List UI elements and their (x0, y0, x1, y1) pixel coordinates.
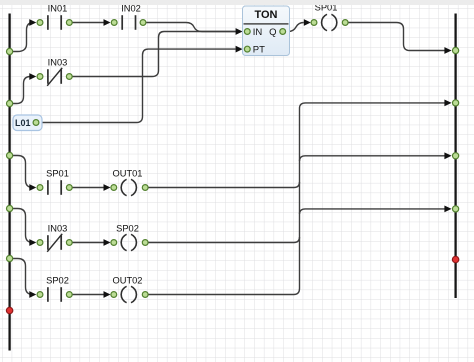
svg-text:OUT01: OUT01 (113, 169, 143, 179)
svg-text:IN03: IN03 (48, 224, 68, 234)
svg-text:OUT02: OUT02 (113, 276, 143, 286)
svg-text:IN03: IN03 (48, 58, 68, 68)
svg-text:TON: TON (254, 9, 277, 21)
svg-text:SP01: SP01 (46, 169, 69, 179)
svg-text:PT: PT (253, 45, 265, 56)
svg-text:L01: L01 (15, 118, 31, 128)
svg-text:SP02: SP02 (116, 224, 139, 234)
svg-text:IN: IN (253, 27, 263, 38)
svg-text:Q: Q (269, 27, 276, 38)
svg-text:SP02: SP02 (46, 276, 69, 286)
